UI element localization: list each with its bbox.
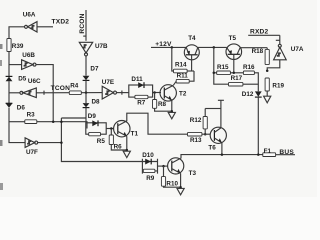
wire T5 base xyxy=(233,54,235,73)
wire TCON line into R4 xyxy=(36,92,69,94)
svg-text:F1: F1 xyxy=(264,148,272,155)
svg-text:U7E: U7E xyxy=(102,79,114,86)
svg-text:R16: R16 xyxy=(243,64,255,71)
resistor R19 xyxy=(265,78,284,96)
inverter U7F xyxy=(25,138,38,156)
svg-text:RXD2: RXD2 xyxy=(250,28,269,35)
svg-text:D11: D11 xyxy=(131,76,143,83)
diode D11 with resistor R7 parallel box xyxy=(129,76,153,106)
svg-text:R10: R10 xyxy=(166,180,178,187)
node +12V rail xyxy=(151,41,186,48)
resistor R16 xyxy=(243,64,258,91)
inverter U7B xyxy=(79,42,108,56)
wire T5 collector to R18 xyxy=(240,47,267,49)
diode D5 xyxy=(6,76,27,83)
junction rail R15 xyxy=(213,46,216,49)
junction node vertical R3 xyxy=(60,120,63,123)
wire T6 emitter to BUS xyxy=(221,143,223,155)
ground R19 xyxy=(264,96,271,103)
node RXD2 xyxy=(248,28,280,35)
wire D9 box to T1 base xyxy=(106,128,114,130)
diode D10 with resistor R9 parallel box xyxy=(142,152,157,182)
wire D8 branch horizontal xyxy=(61,117,85,119)
ground T3 xyxy=(177,188,184,194)
wire T2 emitter to ground xyxy=(171,100,173,111)
svg-text:T1: T1 xyxy=(131,131,139,138)
junction R4 D7 D8 xyxy=(85,91,88,94)
junction T5 base R15 R16 xyxy=(233,72,236,75)
svg-text:D7: D7 xyxy=(90,65,99,72)
svg-text:T5: T5 xyxy=(229,35,237,42)
svg-text:D6: D6 xyxy=(17,105,26,112)
transistor T2 xyxy=(160,85,187,101)
tick on U7E output xyxy=(121,91,123,95)
diode D12 xyxy=(242,91,262,155)
resistor R39 xyxy=(7,39,24,52)
svg-text:R14: R14 xyxy=(175,62,187,69)
svg-text:U7F: U7F xyxy=(26,149,38,156)
tick on RCON wire xyxy=(83,35,86,37)
svg-text:R17: R17 xyxy=(231,75,243,82)
junction D12 BUS xyxy=(257,153,260,156)
transistor T4 xyxy=(184,35,199,60)
svg-text:R19: R19 xyxy=(272,83,284,90)
wire rail drop to R14 xyxy=(172,47,174,71)
junction U6B-R3 xyxy=(52,120,55,123)
svg-text:RCON: RCON xyxy=(79,13,86,33)
resistor R4 xyxy=(69,83,102,95)
svg-text:TXD2: TXD2 xyxy=(52,18,70,25)
svg-text:R6: R6 xyxy=(114,143,123,150)
resistor R14 xyxy=(174,62,195,73)
resistor R13 xyxy=(188,132,211,144)
svg-text:T4: T4 xyxy=(188,35,196,42)
svg-text:U7B: U7B xyxy=(95,43,108,50)
wire rail drop to R15 R17 xyxy=(214,47,229,84)
diode D7 xyxy=(83,65,99,92)
junction R18 R19 U7A xyxy=(266,69,269,72)
svg-text:T6: T6 xyxy=(208,144,216,151)
wire U7A input to R18 R19 node xyxy=(267,60,280,71)
resistor R10 xyxy=(161,166,180,187)
resistor R3 xyxy=(9,111,37,123)
junction R6 top xyxy=(110,127,113,130)
wire T4 base xyxy=(191,55,193,71)
wire U7B to D7 xyxy=(85,56,87,76)
svg-text:R15: R15 xyxy=(217,64,229,71)
transistor T6 xyxy=(208,127,226,151)
svg-text:R5: R5 xyxy=(97,138,106,145)
transistor T5 xyxy=(226,35,242,60)
resistor R6 xyxy=(109,129,127,151)
resistor R17 xyxy=(229,75,259,86)
svg-text:D12: D12 xyxy=(242,91,254,98)
wire T1 collector to R13 line xyxy=(127,113,188,134)
wire T2 collector to R11 xyxy=(173,81,176,85)
ground T1 xyxy=(123,151,130,157)
diode D9 with resistor R5 parallel box xyxy=(86,113,106,145)
svg-text:TCON: TCON xyxy=(51,85,71,92)
svg-text:D8: D8 xyxy=(92,98,101,105)
node RCON xyxy=(79,10,86,41)
junction rail R14 xyxy=(171,46,174,49)
diode D6 xyxy=(6,103,26,111)
junction R12 base line xyxy=(204,133,207,136)
svg-text:BUS: BUS xyxy=(279,149,294,156)
svg-text:R11: R11 xyxy=(177,72,189,79)
svg-text:U6B: U6B xyxy=(22,52,35,59)
resistor R11 xyxy=(176,71,194,83)
resistor R18 xyxy=(252,48,270,65)
svg-text:R13: R13 xyxy=(190,137,202,144)
inverter U6C xyxy=(9,78,41,97)
svg-text:T3: T3 xyxy=(189,170,197,177)
tick T6 collector xyxy=(218,99,224,101)
wire D10 box to T3 base xyxy=(158,165,168,167)
transistor T1 xyxy=(114,121,139,138)
inverter U6B xyxy=(9,52,36,69)
tick on TCON wire xyxy=(43,91,45,95)
wire rail segment D5 to D6 xyxy=(8,81,10,103)
resistor R8 xyxy=(153,93,172,112)
transistor T3 xyxy=(168,158,197,177)
inverter U7E xyxy=(102,79,117,99)
svg-text:R18: R18 xyxy=(252,48,264,55)
wire T1 emitter to ground xyxy=(126,136,128,150)
wire T6 collector stub xyxy=(220,100,222,128)
svg-text:R12: R12 xyxy=(190,117,202,124)
svg-text:R8: R8 xyxy=(158,101,167,108)
wire T3 emitter to ground xyxy=(180,173,182,187)
resistor R12 xyxy=(190,109,208,135)
diode D8 xyxy=(83,93,100,123)
wire rail segment D6 to U7F input xyxy=(9,108,25,143)
fuse F1 xyxy=(263,148,295,157)
svg-text:T2: T2 xyxy=(179,90,187,97)
svg-text:U6C: U6C xyxy=(28,78,41,85)
svg-text:R4: R4 xyxy=(70,83,79,90)
svg-text:D5: D5 xyxy=(18,76,27,83)
wire T3 collector to BUS line xyxy=(181,155,263,159)
wire vertical node to D10 line xyxy=(61,118,142,162)
wire left rail xyxy=(9,27,24,39)
svg-text:R3: R3 xyxy=(27,111,36,118)
wire rail segment R39 to D5 xyxy=(8,52,10,77)
ground T2 xyxy=(168,112,175,118)
svg-text:R9: R9 xyxy=(146,175,155,182)
svg-text:+12V: +12V xyxy=(155,41,172,48)
svg-text:R7: R7 xyxy=(137,100,146,107)
wire U7E output to D11 box xyxy=(117,92,129,94)
inverter U7A xyxy=(274,35,304,60)
svg-text:D9: D9 xyxy=(88,113,97,120)
wire U7F output to node xyxy=(38,142,62,144)
inverter U6A xyxy=(23,12,37,32)
node TXD2 xyxy=(37,18,69,26)
svg-text:D10: D10 xyxy=(142,152,154,159)
wire rail T4 to T5 xyxy=(198,46,227,48)
wire R3 line to D9 branch corner xyxy=(37,122,87,129)
svg-text:U6A: U6A xyxy=(23,12,36,19)
svg-text:R39: R39 xyxy=(12,43,24,50)
wire T6 collector to R12 xyxy=(205,108,221,110)
wire U6B output to lower node xyxy=(36,65,53,122)
resistor R15 xyxy=(214,64,244,74)
junction U7F output xyxy=(60,141,63,144)
svg-text:U7A: U7A xyxy=(291,46,304,53)
edge artifact marks xyxy=(0,44,3,190)
wire D11 box to T2 base xyxy=(153,92,161,94)
